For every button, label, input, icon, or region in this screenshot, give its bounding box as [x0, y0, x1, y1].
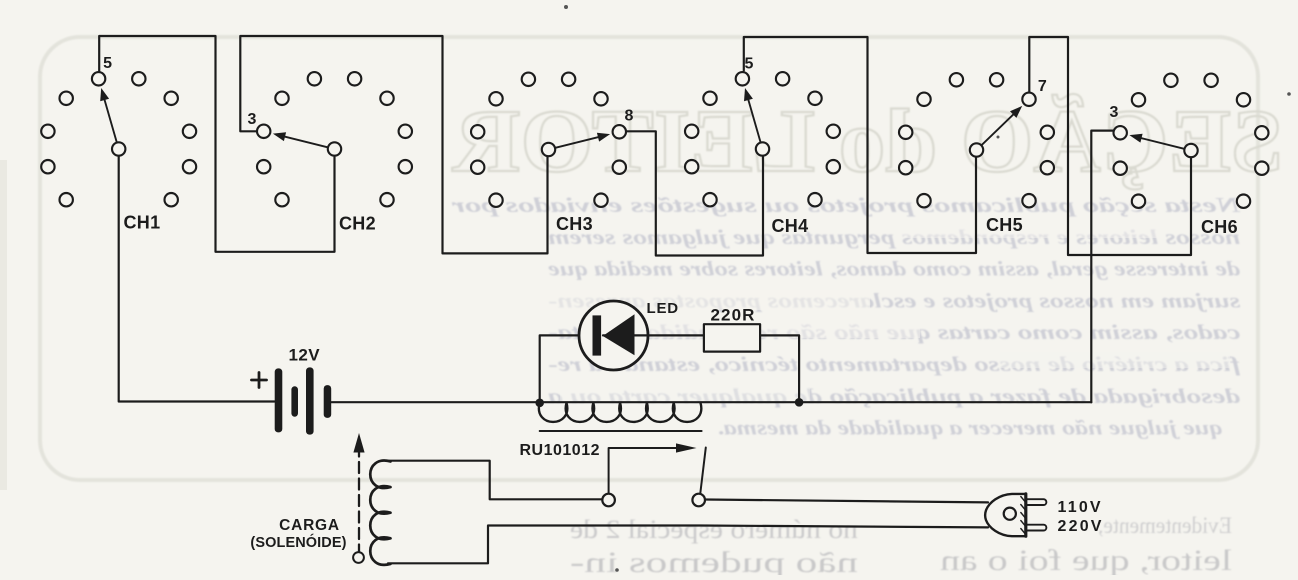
svg-text:8: 8 [625, 108, 634, 125]
svg-text:CH3: CH3 [556, 214, 593, 234]
svg-text:leitor, que foi o an: leitor, que foi o an [940, 544, 1232, 575]
svg-text:220V: 220V [1058, 518, 1104, 535]
svg-text:220R: 220R [711, 306, 756, 325]
svg-text:CH2: CH2 [339, 214, 376, 234]
svg-text:5: 5 [103, 55, 112, 72]
svg-text:que julgue não merecer a quali: que julgue não merecer a qualidade da me… [717, 416, 1222, 440]
svg-text:LED: LED [647, 300, 679, 317]
svg-text:CH5: CH5 [986, 215, 1023, 235]
svg-text:3: 3 [1110, 104, 1119, 121]
svg-text:CH6: CH6 [1201, 217, 1238, 237]
svg-text:RU101012: RU101012 [520, 442, 601, 459]
svg-text:3: 3 [248, 111, 257, 128]
svg-text:no número especial 2 de: no número especial 2 de [570, 515, 858, 544]
svg-text:não pudemos in-: não pudemos in- [570, 546, 858, 575]
svg-text:CH1: CH1 [124, 213, 161, 233]
svg-text:7: 7 [1038, 78, 1047, 95]
svg-text:5: 5 [745, 56, 754, 73]
svg-text:CH4: CH4 [772, 216, 809, 236]
svg-text:CARGA: CARGA [279, 517, 340, 534]
svg-text:Evidentemente,: Evidentemente, [1098, 513, 1232, 538]
svg-text:(SOLENÓIDE): (SOLENÓIDE) [250, 533, 346, 551]
svg-text:de interesse geral, assim como: de interesse geral, assim como damos, le… [547, 257, 1240, 281]
svg-text:110V: 110V [1058, 499, 1103, 516]
svg-text:12V: 12V [289, 346, 321, 365]
